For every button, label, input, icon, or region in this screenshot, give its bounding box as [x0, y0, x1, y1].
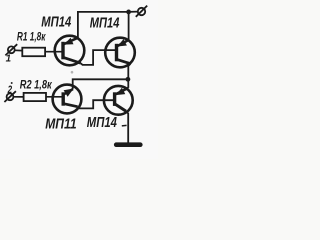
junction dot top rail [126, 10, 131, 15]
svg-text:R2 1,8к: R2 1,8к [20, 79, 52, 92]
label МП14 VT2 [90, 14, 120, 31]
transistor VT4 МП14 (bottom-right, PNP) [104, 86, 133, 115]
svg-text:2: 2 [7, 84, 13, 96]
transistor VT2 МП14 (top-right, PNP) [105, 38, 135, 68]
transistor VT3 МП11 (bottom-left, NPN) [53, 85, 82, 114]
wire VT3 collector to VT4 base [78, 100, 115, 108]
label МП14 VT4 [87, 114, 118, 131]
input terminal 2 [4, 91, 16, 102]
dot above label 2 [11, 82, 13, 84]
svg-text:1: 1 [6, 54, 11, 65]
svg-text:МП14: МП14 [90, 14, 120, 31]
wire VT1 emitter up to top rail [78, 12, 129, 38]
wire dot to output terminal [129, 11, 138, 13]
label R1 1,8k [17, 31, 46, 44]
wire R1 to VT1 base [45, 51, 62, 53]
wire VT2 emitter up to top rail [128, 12, 130, 40]
stray grey dot [71, 71, 74, 74]
label R2 1,8k [20, 79, 52, 92]
wire R2 to VT3 base [46, 96, 63, 98]
wire VT4 emitter up to mid node [127, 79, 129, 88]
output terminal [136, 6, 147, 17]
junction dot mid node [126, 77, 131, 82]
wire terminal2 to R2 [13, 96, 23, 98]
label 2 [7, 84, 13, 96]
wire VT4 collector down to ground [126, 111, 128, 143]
svg-text:МП14: МП14 [87, 114, 118, 131]
svg-text:МП11: МП11 [45, 115, 76, 131]
label МП11 VT3 [45, 115, 76, 131]
label МП14 VT1 [41, 13, 71, 30]
resistor R1 [22, 48, 45, 57]
caption dash after МП14 VT4 [122, 124, 127, 127]
wire VT2 collector down to mid node [128, 64, 130, 80]
wire terminal1 to R1 [15, 49, 23, 51]
transistor VT1 МП14 (top-left, PNP) [55, 36, 85, 66]
ground [116, 142, 140, 147]
wire VT1 collector to VT2 base [81, 50, 117, 65]
label 1 [6, 54, 11, 65]
svg-text:R1 1,8к: R1 1,8к [17, 31, 46, 44]
resistor R2 [24, 93, 46, 101]
wire mid node to VT3 emitter [73, 79, 129, 89]
input terminal 1 [5, 44, 17, 55]
svg-text:МП14: МП14 [41, 13, 71, 30]
